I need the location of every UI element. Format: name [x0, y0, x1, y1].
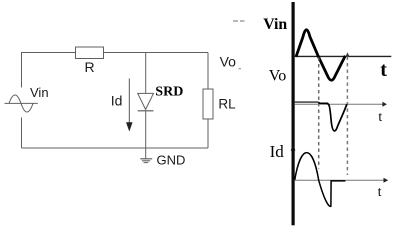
wire right (node to RL and down)	[207, 53, 209, 90]
Id y-axis arrowhead	[291, 143, 296, 150]
svg-text:GND: GND	[157, 153, 186, 168]
current arrow Id	[126, 79, 133, 132]
ground	[140, 159, 152, 163]
resistor RL	[203, 89, 213, 119]
wire left-lower (source to bottom)	[21, 118, 23, 149]
tiny dot near Vo	[239, 68, 242, 70]
wire RL to bottom	[207, 119, 209, 148]
svg-text:t: t	[380, 59, 387, 81]
Vin time axis	[295, 55, 392, 57]
svg-text:R: R	[85, 59, 95, 75]
dashed line 2	[346, 57, 348, 176]
wire top (R to output node)	[104, 52, 209, 54]
dashed line 2 arrowhead	[346, 52, 350, 56]
svg-text:RL: RL	[218, 97, 236, 112]
svg-text:t: t	[378, 109, 382, 124]
svg-text:t: t	[378, 184, 382, 199]
wire diode branch	[145, 53, 147, 94]
dashed line 1	[318, 58, 320, 169]
Vo time axis	[295, 102, 387, 107]
wire diode to ground	[145, 111, 147, 159]
Id time axis	[295, 178, 389, 183]
Id waveform	[295, 153, 346, 207]
diode SRD	[138, 93, 154, 110]
AC source Vin	[5, 95, 38, 112]
svg-text:Vin: Vin	[30, 85, 49, 100]
svg-text:Id: Id	[111, 93, 123, 109]
wire top-left (source to R)	[22, 53, 76, 88]
Vin sine wave	[296, 30, 345, 81]
resistor R	[76, 47, 104, 59]
waveform vertical axis (thick)	[292, 2, 295, 225]
svg-text:Vo: Vo	[220, 53, 237, 69]
svg-text:Vin: Vin	[263, 16, 287, 33]
stray dashes	[233, 20, 245, 22]
Vo waveform flat (positive half clipped)	[295, 101, 319, 103]
svg-text:SRD: SRD	[155, 85, 183, 100]
Vo waveform negative pulse	[318, 102, 347, 131]
wire bottom	[22, 147, 209, 149]
svg-text:Id: Id	[270, 142, 285, 161]
svg-text:Vo: Vo	[269, 68, 287, 85]
